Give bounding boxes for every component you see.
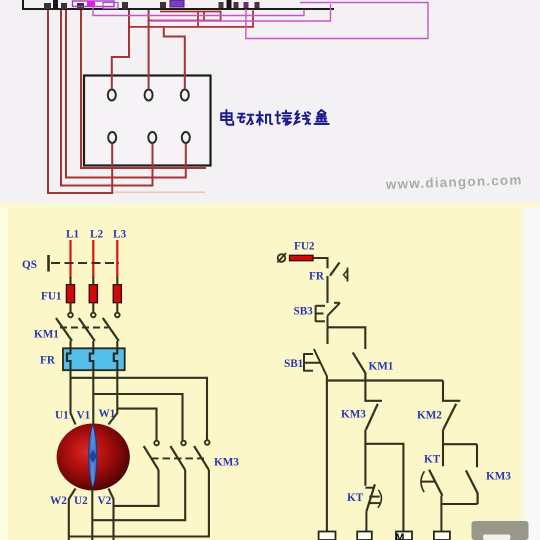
wire: FR to motor W1 xyxy=(109,370,118,424)
contactor KM1 main contact pole 1 xyxy=(56,313,73,341)
coil KM2 with M marking xyxy=(395,532,412,540)
motor terminal box (junction box) xyxy=(84,76,211,166)
time relay KT NC delayed contact xyxy=(365,484,381,511)
terminal stud W1 (box top row 3) xyxy=(181,90,189,101)
motor M body xyxy=(57,424,130,491)
watermark www.diangon.com xyxy=(385,172,523,192)
terminal stud W2 (box bottom row 1) xyxy=(108,132,116,143)
svg-text:KM3: KM3 xyxy=(214,457,239,469)
FR heater element 2 xyxy=(90,348,94,370)
wire: FU1 to KM1 pole 1 xyxy=(69,303,71,313)
wire: FU1 to KM1 pole 3 xyxy=(116,303,118,313)
FR heater element 1 xyxy=(67,348,71,370)
coil KM1 xyxy=(319,532,336,540)
wire: phase L1 incoming (red) xyxy=(69,240,71,278)
svg-text:KM3: KM3 xyxy=(486,471,511,483)
wire: horizontal run C hugging strip xyxy=(160,12,221,21)
svg-text:U2: U2 xyxy=(74,495,88,507)
terminal clamp mid xyxy=(122,2,128,9)
wire: FU2 to FR contact xyxy=(313,258,328,268)
wire: short drop at x204 xyxy=(203,12,205,21)
label KM1 aux contact xyxy=(369,361,394,373)
contactor KM3 main contact pole 1 xyxy=(144,441,159,470)
wire: KM3 pole 3 to W2 node xyxy=(69,470,209,537)
fuse FU1 pole 1 xyxy=(66,285,74,303)
wire: KM3 pole 2 to U2 node xyxy=(92,470,185,520)
wire: FR contact to SB3 xyxy=(326,276,328,303)
wire: KM1 to FR pole 1 xyxy=(69,341,71,349)
wire: box top stud 3 up with jog xyxy=(164,27,185,90)
wire: junction down to KT NO xyxy=(442,444,444,466)
wire: KM1 to FR pole 3 xyxy=(116,341,118,349)
svg-text:U1: U1 xyxy=(55,410,69,422)
KM3 linkage (dashed) xyxy=(151,457,204,459)
label U1 xyxy=(55,410,69,422)
wire: motor W2 lead down xyxy=(69,489,76,540)
wire: control bus xyxy=(327,379,443,381)
wire: SB3 to junction xyxy=(327,316,329,328)
label L3 xyxy=(113,229,126,241)
wire: V1 branch to KM3 pole 2 xyxy=(93,394,182,441)
pushbutton SB3 (NO start) xyxy=(316,303,340,322)
label KT NO delayed contact xyxy=(424,454,441,466)
svg-text:KM1: KM1 xyxy=(34,329,59,341)
label U2 xyxy=(74,495,88,507)
wire: FR to motor U1 xyxy=(71,370,76,424)
wire: strip to box bottom stud 2 xyxy=(61,10,153,186)
switch QS handle bar xyxy=(47,255,50,272)
terminal stud U2 (box bottom row 2) xyxy=(148,132,156,143)
time relay KT NO delayed contact xyxy=(421,470,443,496)
wire: horizontal run B below strip xyxy=(129,11,253,27)
label L2 xyxy=(90,229,103,241)
label KM1 xyxy=(34,329,59,341)
magenta wire: big loop rectangle xyxy=(246,3,428,39)
svg-text:L3: L3 xyxy=(113,229,126,241)
svg-text:KM1: KM1 xyxy=(369,361,394,373)
wire: FU1 to KM1 pole 2 xyxy=(92,303,94,313)
contactor KM3 NO aux contact xyxy=(466,444,478,504)
FR heater element 3 xyxy=(114,348,118,370)
svg-text:FR: FR xyxy=(40,355,56,367)
switch QS linkage (dashed) xyxy=(51,262,119,264)
label KT NC delayed contact xyxy=(347,492,364,504)
wire: bus to KM1 coil xyxy=(326,381,328,532)
label FR contact xyxy=(309,271,325,283)
label FU1 xyxy=(41,291,62,303)
terminal stud U1 (box top row 1) xyxy=(108,90,116,101)
contactor KM3 NC interlock contact xyxy=(365,381,382,430)
fuse FU1 pole 3 xyxy=(113,285,121,303)
label QS xyxy=(22,259,37,271)
svg-text:V1: V1 xyxy=(77,410,91,422)
wire: short drop at x198 xyxy=(197,12,199,27)
fuse FU2 xyxy=(290,255,314,260)
wire: strip to box bottom stud 3 xyxy=(66,10,186,178)
svg-text:SB1: SB1 xyxy=(284,358,304,370)
wire: KT NC to KM3 coil xyxy=(365,511,367,531)
contactor KM2 NC interlock contact xyxy=(443,381,460,430)
label: box title 电动机接线盒 xyxy=(221,110,329,125)
wire: KT NO to node with KM3 aux xyxy=(441,496,477,504)
coil KT xyxy=(434,532,450,540)
label SB1 xyxy=(284,358,304,370)
terminal clamps left group xyxy=(44,0,84,9)
label V2 xyxy=(98,495,112,507)
label FR xyxy=(40,355,56,367)
label V1 xyxy=(77,410,91,422)
wire: box top stud 2 up to strip xyxy=(148,10,150,89)
wire: QS to FU1 pole 1 xyxy=(69,277,71,286)
svg-text:FU2: FU2 xyxy=(294,241,315,253)
thermal overload relay FR body xyxy=(63,348,125,370)
wire: phase L3 incoming (red) xyxy=(116,240,118,278)
faint ghost wire below box xyxy=(113,191,205,193)
svg-text:SB3: SB3 xyxy=(294,306,314,318)
label KM3 main contacts xyxy=(214,457,239,469)
fuse FU1 pole 2 xyxy=(89,285,97,303)
wire: KM1 to FR pole 2 xyxy=(92,341,94,349)
svg-text:W2: W2 xyxy=(50,495,67,507)
label W1 xyxy=(99,408,116,420)
svg-text:KM2: KM2 xyxy=(417,410,442,422)
wire: W1 branch to KM3 pole 1 xyxy=(117,409,156,441)
wire: U1 branch to KM3 pole 3 xyxy=(71,378,208,440)
svg-text:KT: KT xyxy=(347,492,364,504)
label KM3 NC interlock xyxy=(341,409,366,421)
svg-text:M: M xyxy=(395,532,404,540)
magenta wire: purple block run to strip xyxy=(93,6,304,16)
label KM2 NC interlock xyxy=(417,410,442,422)
terminal stud V1 (box top row 2) xyxy=(145,90,153,101)
KM1 linkage (dashed) xyxy=(60,327,108,329)
wire: strip down left side under box xyxy=(81,10,206,168)
contactor KM1 main contact pole 3 xyxy=(103,313,120,341)
contactor KM3 main contact pole 3 xyxy=(194,440,209,470)
wire: KM3 NC to junction and branch right xyxy=(365,430,403,532)
FR NC contact blade xyxy=(330,263,340,276)
label FU2 xyxy=(294,241,315,253)
contactor KM1 main contact pole 2 xyxy=(79,313,96,341)
pushbutton SB1 (NC stop) xyxy=(304,349,327,381)
wire: strip to box bottom stud 1 (left nest outer) xyxy=(48,10,112,193)
svg-text:V2: V2 xyxy=(98,495,112,507)
svg-text:KT: KT xyxy=(424,454,441,466)
svg-text:FU1: FU1 xyxy=(41,291,62,303)
contactor KM3 main contact pole 2 xyxy=(170,441,185,470)
magenta wire: inner loop rectangle xyxy=(152,4,331,21)
wire: node to KT coil xyxy=(440,504,442,532)
svg-text:L2: L2 xyxy=(90,229,103,241)
svg-text:QS: QS xyxy=(22,259,37,271)
wire: junction down to KT NC xyxy=(364,444,366,486)
terminal clamps right group xyxy=(219,0,260,9)
wire: QS to FU1 pole 2 xyxy=(92,277,94,286)
control tap terminal xyxy=(278,253,287,263)
label KM3 NO aux contact xyxy=(486,471,511,483)
watermark logo box xyxy=(472,521,529,540)
purple terminal block mid xyxy=(160,0,184,8)
svg-text:KM3: KM3 xyxy=(341,409,366,421)
label W2 xyxy=(50,495,67,507)
FR trip symbol xyxy=(344,268,348,282)
wire: junction branch to KM1 aux xyxy=(328,327,366,349)
contactor KM1 aux NO contact xyxy=(353,352,366,380)
label L1 xyxy=(66,229,79,241)
coil KM3 xyxy=(357,532,372,540)
purple connector block xyxy=(73,1,119,9)
svg-text:L1: L1 xyxy=(66,229,79,241)
wire: horizontal run A below strip xyxy=(149,20,221,22)
wire: motor V2 lead down xyxy=(109,489,114,540)
wire: motor U2 lead down xyxy=(91,490,93,540)
wire: QS to FU1 pole 3 xyxy=(116,277,118,286)
wire: KM2 NC to junction and branch right xyxy=(443,430,477,445)
terminal stud V2 (box bottom row 3) xyxy=(182,132,190,143)
wire: KM3 pole 1 to V2 node xyxy=(114,470,159,506)
wire: FR to motor V1 xyxy=(92,370,94,424)
terminal strip panel edge xyxy=(23,0,334,9)
svg-text:FR: FR xyxy=(309,271,325,283)
wire: phase L2 incoming (red) xyxy=(92,240,94,278)
wire: junction to SB1 xyxy=(326,327,328,344)
wire: box top stud 1 up to strip xyxy=(112,10,129,89)
label SB3 xyxy=(294,306,314,318)
